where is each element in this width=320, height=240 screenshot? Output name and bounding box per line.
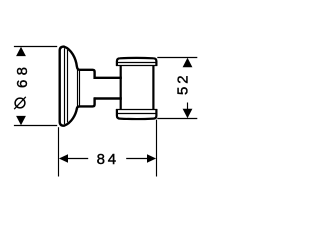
svg-text:84: 84 <box>97 151 119 168</box>
svg-text:68: 68 <box>14 63 31 88</box>
svg-text:52: 52 <box>174 73 191 95</box>
